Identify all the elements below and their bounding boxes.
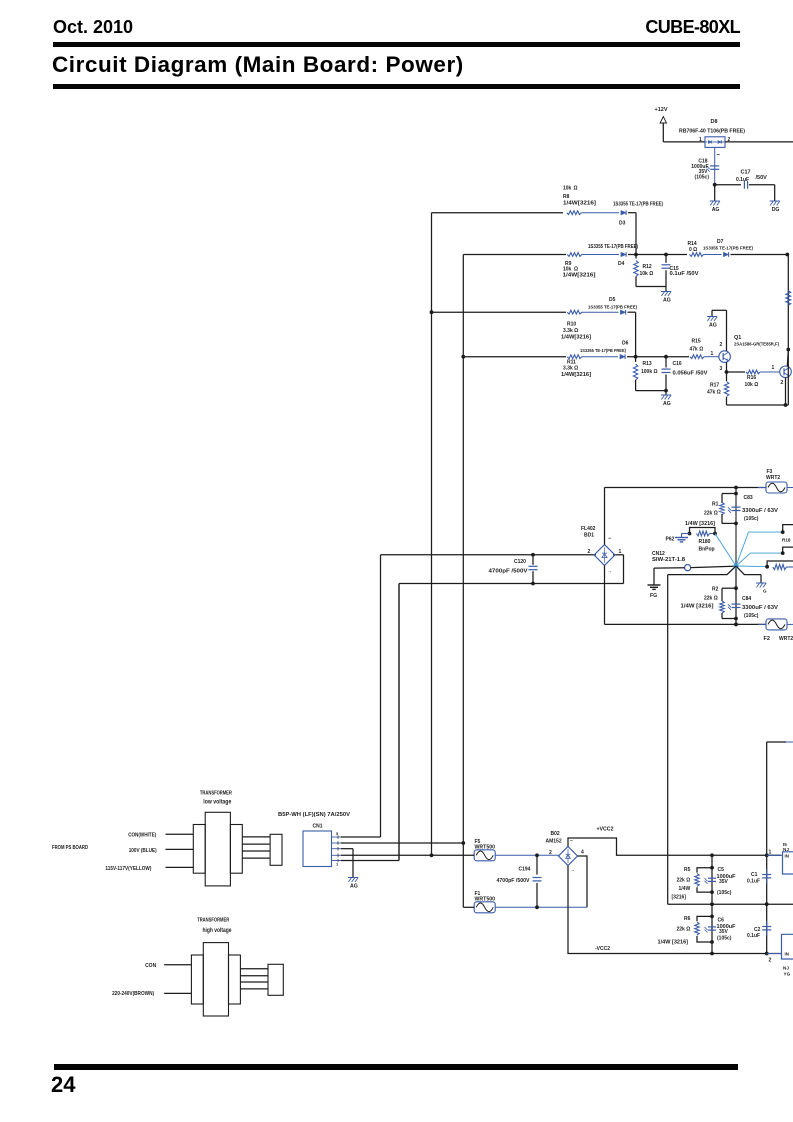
svg-text:D4: D4 bbox=[618, 261, 625, 267]
svg-text:C16: C16 bbox=[673, 361, 682, 367]
svg-text:CON: CON bbox=[145, 963, 157, 969]
svg-text:3: 3 bbox=[720, 366, 723, 372]
svg-text:-VCC2: -VCC2 bbox=[595, 946, 610, 952]
svg-text:BnPop: BnPop bbox=[699, 547, 715, 553]
svg-text:35V: 35V bbox=[719, 879, 729, 885]
svg-text:WRT2: WRT2 bbox=[766, 475, 780, 481]
svg-text:+12V: +12V bbox=[655, 107, 668, 113]
svg-text:1/4W[3216]: 1/4W[3216] bbox=[561, 335, 591, 341]
svg-text:10k: 10k bbox=[563, 186, 572, 192]
svg-text:1S3355 TE-17(PB FREE): 1S3355 TE-17(PB FREE) bbox=[703, 246, 753, 251]
svg-text:R180: R180 bbox=[699, 539, 711, 545]
svg-text:4700pF /500V: 4700pF /500V bbox=[489, 569, 529, 575]
svg-text:low voltage: low voltage bbox=[203, 799, 232, 805]
svg-text:B02: B02 bbox=[551, 831, 560, 837]
svg-text:FROM PS BOARD: FROM PS BOARD bbox=[52, 845, 88, 851]
svg-text:22k Ω: 22k Ω bbox=[677, 927, 691, 933]
svg-text:100k Ω: 100k Ω bbox=[641, 369, 658, 375]
svg-text:R10: R10 bbox=[567, 322, 576, 328]
svg-text:/50V: /50V bbox=[756, 175, 768, 181]
svg-text:high voltage: high voltage bbox=[203, 928, 233, 934]
svg-text:R15: R15 bbox=[692, 339, 701, 345]
svg-text:C120: C120 bbox=[514, 559, 526, 565]
svg-text:35V: 35V bbox=[719, 929, 729, 935]
svg-text:R18: R18 bbox=[782, 538, 791, 543]
svg-text:IN: IN bbox=[785, 854, 789, 859]
svg-text:220-240V(BROWN): 220-240V(BROWN) bbox=[112, 991, 154, 997]
svg-text:R5: R5 bbox=[684, 867, 691, 873]
svg-text:R6: R6 bbox=[684, 916, 691, 922]
svg-text:BD1: BD1 bbox=[584, 533, 594, 539]
svg-text:TRANSFORMER: TRANSFORMER bbox=[200, 791, 232, 797]
svg-text:D6: D6 bbox=[622, 341, 629, 347]
svg-text:R13: R13 bbox=[643, 361, 652, 367]
svg-text:4700pF /500V: 4700pF /500V bbox=[497, 878, 531, 884]
svg-text:22k Ω: 22k Ω bbox=[704, 596, 718, 602]
svg-text:D5: D5 bbox=[609, 297, 616, 303]
svg-text:1: 1 bbox=[769, 850, 772, 856]
svg-text:C84: C84 bbox=[742, 596, 751, 602]
svg-text:WRT500: WRT500 bbox=[475, 897, 496, 903]
svg-text:1S3355 TE-17(PB FREE): 1S3355 TE-17(PB FREE) bbox=[588, 305, 637, 310]
svg-text:1/4W [3216]: 1/4W [3216] bbox=[681, 604, 714, 610]
svg-text:5: 5 bbox=[336, 831, 339, 836]
svg-text:1/4W[3216]: 1/4W[3216] bbox=[563, 273, 596, 279]
svg-text:0.1uF: 0.1uF bbox=[747, 933, 760, 939]
svg-text:F2: F2 bbox=[764, 636, 770, 642]
svg-text:→: → bbox=[571, 868, 576, 873]
svg-text:22k Ω: 22k Ω bbox=[677, 878, 691, 884]
svg-text:WRT2: WRT2 bbox=[779, 636, 793, 642]
svg-text:0 Ω: 0 Ω bbox=[689, 247, 697, 253]
svg-text:+VCC2: +VCC2 bbox=[597, 827, 614, 833]
svg-text:100V (BLUE): 100V (BLUE) bbox=[129, 848, 157, 854]
svg-text:CON(WHITE): CON(WHITE) bbox=[128, 833, 156, 839]
svg-text:3.3k Ω: 3.3k Ω bbox=[563, 366, 578, 372]
svg-text:0.1uF /50V: 0.1uF /50V bbox=[670, 271, 700, 277]
svg-text:~: ~ bbox=[717, 153, 721, 159]
svg-text:1S3355 TE-17(PB FREE): 1S3355 TE-17(PB FREE) bbox=[588, 244, 638, 250]
svg-text:P62: P62 bbox=[666, 537, 675, 543]
svg-text:1: 1 bbox=[772, 365, 775, 371]
svg-text:D8: D8 bbox=[711, 119, 718, 125]
svg-text:(105c): (105c) bbox=[717, 890, 732, 896]
svg-text:C17: C17 bbox=[741, 170, 751, 176]
svg-text:CN1: CN1 bbox=[313, 824, 323, 830]
svg-text:RB706F-40 T106(PB FREE): RB706F-40 T106(PB FREE) bbox=[679, 129, 745, 135]
svg-text:1: 1 bbox=[619, 549, 622, 555]
svg-text:AM152: AM152 bbox=[546, 839, 562, 845]
svg-text:2SA1586-GR(TE85R,F): 2SA1586-GR(TE85R,F) bbox=[734, 342, 780, 347]
svg-text:AG: AG bbox=[712, 207, 720, 213]
svg-text:TRANSFORMER: TRANSFORMER bbox=[197, 918, 229, 924]
svg-text:AG: AG bbox=[709, 323, 717, 329]
svg-text:[3216]: [3216] bbox=[672, 895, 687, 901]
svg-text:C194: C194 bbox=[519, 867, 531, 873]
svg-text:NJ: NJ bbox=[783, 966, 789, 971]
svg-text:IN: IN bbox=[785, 952, 789, 957]
svg-text:C83: C83 bbox=[744, 495, 753, 501]
svg-text:4: 4 bbox=[581, 850, 584, 856]
svg-text:2: 2 bbox=[720, 342, 723, 348]
svg-text:22k Ω: 22k Ω bbox=[704, 511, 718, 517]
svg-text:R8: R8 bbox=[563, 194, 570, 200]
svg-text:AG: AG bbox=[663, 298, 671, 304]
svg-text:1/4W [3216]: 1/4W [3216] bbox=[658, 940, 689, 946]
svg-text:(105c): (105c) bbox=[717, 936, 732, 942]
svg-text:−: − bbox=[570, 838, 573, 844]
svg-text:−: − bbox=[608, 536, 611, 542]
svg-text:AG: AG bbox=[350, 884, 358, 890]
svg-text:R16: R16 bbox=[747, 375, 756, 381]
svg-text:3300uF / 63V: 3300uF / 63V bbox=[742, 605, 779, 611]
svg-text:FL402: FL402 bbox=[581, 526, 596, 532]
svg-text:FG: FG bbox=[650, 593, 657, 599]
svg-text:(105c): (105c) bbox=[744, 613, 759, 619]
svg-text:47k Ω: 47k Ω bbox=[690, 347, 704, 353]
svg-text:10k Ω: 10k Ω bbox=[640, 271, 654, 277]
svg-text:2: 2 bbox=[549, 850, 552, 856]
svg-text:2: 2 bbox=[769, 958, 772, 964]
svg-text:WRT500: WRT500 bbox=[475, 845, 496, 851]
svg-text:1: 1 bbox=[336, 862, 339, 867]
svg-text:NJ: NJ bbox=[783, 847, 789, 852]
svg-text:R12: R12 bbox=[643, 264, 652, 270]
svg-text:R1: R1 bbox=[712, 502, 719, 508]
svg-text:3.3k Ω: 3.3k Ω bbox=[563, 328, 578, 334]
svg-text:47k Ω: 47k Ω bbox=[707, 390, 721, 396]
svg-text:1: 1 bbox=[699, 137, 702, 143]
svg-text:C6: C6 bbox=[718, 918, 725, 924]
svg-text:0.056uF /50V: 0.056uF /50V bbox=[673, 371, 709, 377]
svg-text:DG: DG bbox=[772, 207, 780, 213]
svg-text:115V-117V(YELLOW): 115V-117V(YELLOW) bbox=[105, 866, 151, 872]
svg-text:2: 2 bbox=[781, 380, 784, 386]
svg-text:(105c): (105c) bbox=[695, 175, 710, 181]
svg-text:1/4W [3216]: 1/4W [3216] bbox=[685, 521, 715, 527]
svg-text:SIW-21T-1.8: SIW-21T-1.8 bbox=[652, 557, 685, 563]
svg-text:YG: YG bbox=[784, 972, 791, 977]
svg-text:Ω: Ω bbox=[574, 186, 578, 192]
svg-text:1S3355 TE-17(PB FREE): 1S3355 TE-17(PB FREE) bbox=[580, 348, 626, 353]
svg-text:1S3355 TE-17(PB FREE): 1S3355 TE-17(PB FREE) bbox=[613, 202, 663, 208]
svg-text:10k Ω: 10k Ω bbox=[745, 382, 759, 388]
svg-text:1/4W[3216]: 1/4W[3216] bbox=[561, 372, 591, 378]
svg-text:→: → bbox=[607, 569, 612, 575]
svg-text:0.1uF: 0.1uF bbox=[736, 177, 749, 183]
svg-text:B5P-WH (LF)(SN) 7A/250V: B5P-WH (LF)(SN) 7A/250V bbox=[278, 812, 351, 818]
svg-text:3300uF / 63V: 3300uF / 63V bbox=[742, 508, 779, 514]
svg-text:1/4W[3216]: 1/4W[3216] bbox=[563, 201, 596, 207]
svg-text:D7: D7 bbox=[717, 239, 724, 245]
svg-text:0.1uF: 0.1uF bbox=[747, 879, 760, 885]
svg-text:D3: D3 bbox=[619, 221, 626, 227]
svg-text:1: 1 bbox=[711, 351, 714, 357]
svg-text:C1: C1 bbox=[751, 872, 758, 878]
svg-text:G: G bbox=[763, 589, 767, 594]
svg-text:AG: AG bbox=[663, 401, 671, 407]
svg-text:2: 2 bbox=[588, 549, 591, 555]
svg-text:R17: R17 bbox=[710, 383, 719, 389]
svg-text:(105c): (105c) bbox=[744, 516, 759, 522]
svg-text:1/4W: 1/4W bbox=[679, 886, 691, 892]
svg-text:C5: C5 bbox=[718, 867, 725, 873]
svg-text:Q1: Q1 bbox=[734, 335, 741, 341]
svg-text:R2: R2 bbox=[712, 587, 719, 593]
